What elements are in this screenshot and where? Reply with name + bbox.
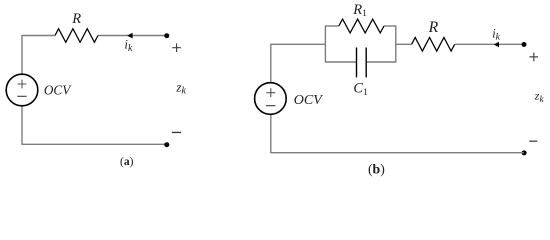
- wire: top branch left of R1: [325, 25, 339, 27]
- terminal - (circuit b): [529, 140, 537, 142]
- wire: (a) bottom horizontal: [21, 143, 166, 145]
- resistor R (circuit b): [412, 38, 455, 52]
- node: (a) bottom-right terminal dot: [164, 142, 169, 147]
- voltage source OCV (circuit b): [255, 83, 287, 115]
- wire: (b) horizontal from source to RC network: [270, 43, 325, 45]
- node: (b) top-right terminal dot: [522, 42, 527, 47]
- source - sign (circuit a): [17, 95, 26, 97]
- wire: top branch right of R1: [384, 25, 396, 27]
- wire: RC network left vertical bar: [324, 26, 326, 62]
- svg-text:(b): (b): [368, 162, 385, 178]
- terminal + (circuit b): [530, 53, 539, 62]
- source - sign (circuit b): [266, 105, 275, 107]
- wire: bottom branch left of C1: [325, 61, 357, 63]
- wire: RC network right vertical bar: [395, 26, 397, 62]
- terminal - (circuit a): [172, 131, 181, 133]
- svg-text:(a): (a): [120, 156, 134, 168]
- wire: (a) top horizontal right of resistor: [98, 35, 167, 37]
- wire: (b) left vertical bottom segment: [270, 114, 272, 152]
- wire: (b) between RC network and resistor R: [395, 43, 411, 45]
- wire: (a) left vertical top segment: [21, 36, 23, 75]
- svg-text:R: R: [428, 19, 439, 36]
- svg-text:OCV: OCV: [44, 83, 72, 98]
- source + sign (circuit b): [266, 88, 275, 97]
- node: (b) bottom-right terminal dot: [522, 150, 527, 155]
- svg-text:R: R: [71, 11, 81, 27]
- wire: (a) top horizontal left of resistor: [21, 35, 55, 37]
- terminal + (circuit a): [172, 43, 181, 52]
- source + sign (circuit a): [18, 80, 27, 89]
- voltage source OCV (circuit a): [6, 74, 38, 106]
- node: (a) top-right terminal dot: [164, 33, 169, 38]
- wire: (b) bottom horizontal: [270, 152, 524, 154]
- current arrow i_k (circuit a): [127, 33, 132, 39]
- resistor R1 (circuit b): [339, 19, 384, 33]
- capacitor C1 right plate: [365, 48, 367, 78]
- wire: (b) top horizontal right of resistor: [455, 43, 524, 45]
- capacitor C1 left plate: [356, 48, 358, 78]
- wire: bottom branch right of C1: [366, 61, 396, 63]
- wire: (a) left vertical bottom segment: [21, 106, 23, 145]
- current arrow i_k (circuit b): [494, 42, 499, 48]
- svg-text:OCV: OCV: [294, 93, 323, 108]
- resistor R (circuit a): [55, 29, 98, 43]
- wire: (b) left vertical top segment: [270, 44, 272, 83]
